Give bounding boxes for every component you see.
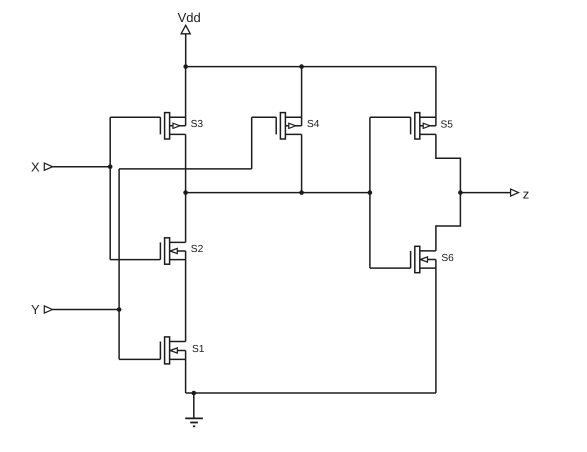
svg-text:S2: S2 <box>191 244 204 255</box>
S2 body lead <box>170 250 186 252</box>
ground stub <box>193 393 195 418</box>
S4 body arrow <box>289 123 296 128</box>
S2 bottom lead <box>170 259 186 261</box>
S6 gate plate <box>410 251 412 268</box>
transistor S3 (PMOS) <box>110 67 185 193</box>
S3 channel bar <box>165 113 170 139</box>
S3 body arrow <box>173 123 180 128</box>
S4 body lead <box>285 125 301 127</box>
wire S5 drain (rail to body tie) <box>435 67 437 126</box>
wire S4 drain (rail to body tie) <box>301 67 303 126</box>
svg-text:S6: S6 <box>441 253 454 264</box>
S1 bottom lead <box>170 358 186 360</box>
transistor S2 (NMOS) <box>160 193 185 342</box>
node S4 drain junction <box>299 64 304 69</box>
wire bottom ground rail <box>186 392 436 394</box>
Vdd power symbol (up arrow) <box>181 25 190 34</box>
S6 body arrow <box>420 257 427 262</box>
svg-text:Y: Y <box>31 302 40 317</box>
S2 top lead <box>170 241 186 243</box>
ground bar 2 <box>190 422 198 424</box>
svg-text:Vdd: Vdd <box>178 10 201 25</box>
wire Y net upper horizontal to S4 gate <box>119 168 252 170</box>
wire S6 gate lead <box>370 267 411 269</box>
S3 body lead <box>170 125 186 127</box>
S2 gate plate <box>159 242 161 259</box>
Y input port arrow <box>44 306 52 313</box>
S2 body tie to source <box>185 251 187 260</box>
wire S4 gate lead <box>252 116 277 118</box>
S1 body tie to source <box>185 351 187 360</box>
S2 channel bar <box>165 238 170 264</box>
node Vdd/S3 drain junction <box>183 64 188 69</box>
wire S6 source down to ground rail <box>435 268 437 393</box>
wire Y net vertical <box>118 169 120 360</box>
wire S3 source down to mid rail <box>185 134 187 192</box>
S5 top lead <box>420 116 436 118</box>
wire S5-S6 gate vertical <box>369 117 371 268</box>
node ground tap junction <box>192 391 197 396</box>
wire X input line <box>53 166 111 168</box>
S5 body lead <box>420 125 436 127</box>
X input port arrow <box>44 163 52 170</box>
wire S6 drain step from output node <box>436 193 461 251</box>
S3 top lead <box>170 116 186 118</box>
node S4 source junction <box>299 190 304 195</box>
wire S3 drain (rail to body tie) <box>185 67 187 126</box>
node S5/S6 gate junction <box>368 190 373 195</box>
S6 body tie to source <box>435 260 437 269</box>
S6 top lead <box>420 250 436 252</box>
wire S1 gate lead <box>119 358 160 360</box>
wire Vdd stem <box>185 34 187 67</box>
transistor S5 (PMOS) <box>370 67 461 193</box>
S1 body lead <box>170 350 186 352</box>
node Y junction <box>117 307 122 312</box>
z output port arrow <box>511 189 519 196</box>
ground bar 1 <box>185 417 203 419</box>
S4 gate plate <box>275 117 277 134</box>
svg-text:S4: S4 <box>307 119 320 130</box>
S4 bottom lead <box>285 133 301 135</box>
wire top Vdd rail <box>186 66 436 68</box>
wire S2 gate lead <box>110 259 160 261</box>
svg-text:S1: S1 <box>192 344 205 355</box>
S1 top lead <box>170 341 186 343</box>
S5 bottom lead <box>420 133 436 135</box>
wire X net vertical (S3 gate to S2 gate) <box>109 117 111 259</box>
ground bar 3 <box>193 425 195 427</box>
wire S3 gate lead <box>110 116 160 118</box>
transistor S4 (PMOS) <box>252 67 302 193</box>
wire S4 source down to mid rail <box>301 134 303 192</box>
wire Y input line <box>53 309 120 311</box>
wire output z line <box>460 192 510 194</box>
wire S2 source down to S1 drain <box>185 260 187 342</box>
wire S4 gate drop vertical <box>251 117 253 169</box>
S2 body arrow <box>170 248 177 253</box>
wire S1 source down to ground rail <box>185 359 187 393</box>
S1 body arrow <box>170 348 177 353</box>
S6 bottom lead <box>420 267 436 269</box>
S3 bottom lead <box>170 133 186 135</box>
svg-text:S5: S5 <box>441 120 454 131</box>
S3 gate plate <box>159 117 161 134</box>
S1 gate plate <box>159 342 161 360</box>
S5 body arrow <box>423 123 430 128</box>
svg-text:S3: S3 <box>191 119 204 130</box>
S4 channel bar <box>280 113 285 139</box>
node S3 source / S2 drain junction <box>183 190 188 195</box>
wire S2 drain up to mid rail <box>185 193 187 243</box>
S1 channel bar <box>165 337 170 364</box>
transistor S6 (NMOS) <box>370 193 461 393</box>
transistor S1 (NMOS) <box>160 337 185 393</box>
ground symbol <box>185 393 203 426</box>
wire S5 source step to output node <box>436 134 461 192</box>
wire mid rail (NAND output node) <box>186 192 370 194</box>
S5 gate plate <box>410 117 412 134</box>
node output z junction <box>458 190 463 195</box>
S4 top lead <box>285 116 301 118</box>
S6 channel bar <box>415 246 420 272</box>
S5 channel bar <box>415 113 420 139</box>
svg-text:z: z <box>523 187 530 202</box>
S6 body lead <box>420 259 436 261</box>
svg-text:X: X <box>31 160 40 175</box>
wire S5 gate lead <box>370 116 411 118</box>
node X junction <box>108 164 113 169</box>
